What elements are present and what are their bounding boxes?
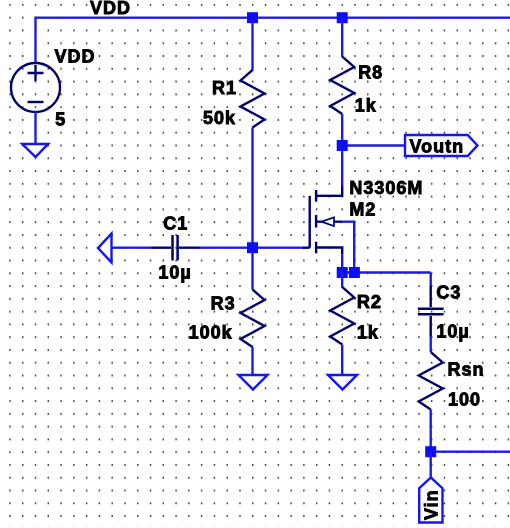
wire [430, 452, 432, 478]
capacitor C1 [152, 235, 200, 261]
resistor Rsn [419, 352, 443, 410]
svg-text:Voutn: Voutn [410, 137, 465, 157]
wire [200, 246, 304, 248]
flag Voutn [405, 135, 478, 156]
wire [342, 222, 354, 273]
wire [341, 254, 343, 272]
wire [342, 144, 405, 146]
svg-text:Vin: Vin [422, 489, 442, 520]
wire [430, 273, 432, 287]
wire [430, 410, 432, 452]
svg-text:C1: C1 [163, 213, 188, 233]
junction [349, 267, 360, 278]
wire [112, 246, 152, 248]
port Vin [419, 478, 442, 523]
ground [22, 144, 48, 157]
svg-text:C3: C3 [436, 283, 461, 303]
wire [251, 18, 253, 71]
junction [425, 446, 436, 457]
svg-text:10µ: 10µ [158, 262, 191, 282]
svg-text:1k: 1k [357, 323, 379, 343]
junction [337, 267, 348, 278]
junction [247, 242, 258, 253]
wire [341, 18, 343, 57]
wire [341, 345, 343, 376]
svg-text:N3306M: N3306M [349, 178, 423, 198]
port arrow (input) [98, 234, 112, 263]
capacitor C3 [418, 286, 444, 336]
svg-text:5: 5 [55, 110, 66, 130]
wire [251, 347, 253, 375]
junction [337, 12, 348, 23]
wire [431, 451, 510, 453]
wire [430, 336, 432, 352]
wire [341, 114, 343, 186]
junction [337, 140, 348, 151]
wire [36, 18, 510, 64]
resistor R3 [241, 290, 265, 348]
wire [341, 273, 343, 288]
svg-text:1k: 1k [355, 96, 377, 116]
voltage source VDD [11, 63, 60, 112]
ground [328, 375, 357, 390]
svg-text:R1: R1 [212, 78, 237, 98]
junction [247, 12, 258, 23]
wire [34, 112, 36, 145]
svg-text:VDD: VDD [90, 0, 131, 18]
resistor R2 [330, 287, 354, 345]
wire [251, 128, 253, 290]
ground [239, 375, 268, 390]
svg-text:50k: 50k [203, 108, 236, 128]
wire [342, 271, 431, 273]
svg-text:10µ: 10µ [436, 322, 469, 342]
svg-text:R2: R2 [357, 292, 382, 312]
svg-text:Rsn: Rsn [448, 360, 485, 380]
svg-text:M2: M2 [349, 199, 376, 219]
resistor R1 [241, 70, 265, 128]
svg-text:R8: R8 [358, 63, 383, 83]
transistor M2 [303, 186, 342, 254]
svg-text:100k: 100k [189, 323, 233, 343]
svg-text:R3: R3 [211, 294, 236, 314]
svg-text:100: 100 [448, 390, 481, 410]
svg-text:VDD: VDD [55, 47, 96, 67]
resistor R8 [330, 57, 354, 115]
